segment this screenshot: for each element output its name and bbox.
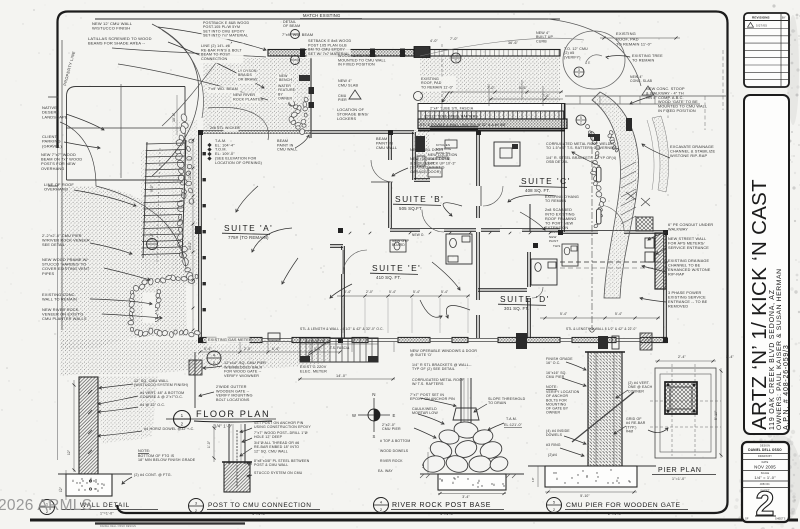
svg-text:SUITE 'B': SUITE 'B' bbox=[395, 194, 444, 204]
courtyard gate line bbox=[310, 56, 312, 138]
svg-text:2'-4": 2'-4" bbox=[726, 355, 734, 359]
pier top bbox=[585, 351, 625, 353]
svg-text:5'-4": 5'-4" bbox=[560, 312, 568, 316]
gravel band along bottom wall bbox=[60, 340, 330, 376]
keynote circles courtyard bbox=[291, 30, 300, 39]
svg-text:10": 10" bbox=[531, 477, 535, 482]
pier ground bbox=[528, 465, 545, 467]
lattice rungs bbox=[146, 143, 185, 144]
existing roof dim bbox=[600, 37, 680, 39]
svg-text:#: # bbox=[478, 479, 480, 483]
rrpb base bbox=[438, 474, 506, 490]
svg-text:5'-10": 5'-10" bbox=[714, 410, 718, 420]
lattice rails bbox=[143, 142, 147, 258]
margin ticks bbox=[48, 96, 58, 98]
interior dim row suite E bbox=[337, 295, 470, 297]
svg-text:2: 2 bbox=[756, 485, 775, 523]
patio stipple top bbox=[203, 58, 310, 130]
suite A top wall bbox=[200, 130, 414, 132]
svg-text:POSTBACK E 8&B WOODPOST.105 PL: POSTBACK E 8&B WOODPOST.105 PL/W 5YMSET … bbox=[203, 21, 249, 38]
svg-text:MATCH EXISTING: MATCH EXISTING bbox=[303, 13, 340, 18]
svg-text:PAINT: PAINT bbox=[549, 239, 558, 243]
rrpb collar bbox=[453, 408, 479, 420]
svg-text:5'-4": 5'-4" bbox=[413, 290, 421, 294]
svg-text:SUITE 'C': SUITE 'C' bbox=[521, 176, 571, 186]
svg-text:PIER PLAN: PIER PLAN bbox=[658, 467, 702, 474]
corridor wall ticks bbox=[349, 232, 352, 235]
pier diagonal batten bbox=[572, 392, 634, 442]
svg-text:1"=1'-0": 1"=1'-0" bbox=[252, 512, 267, 516]
storefront sill bbox=[418, 130, 565, 132]
post detail: threaded rod bbox=[236, 430, 238, 488]
left dim row verticals bbox=[239, 342, 241, 352]
lattice dim ticks bbox=[157, 148, 160, 262]
svg-text:5: 5 bbox=[580, 116, 582, 120]
wall detail title bbox=[40, 500, 55, 515]
interior dim row suite D bbox=[540, 317, 660, 319]
svg-text:7'-0": 7'-0" bbox=[450, 37, 458, 41]
svg-text:ARTZ ‘N’ 1/ KICK ‘N CAST: ARTZ ‘N’ 1/ KICK ‘N CAST bbox=[748, 179, 771, 430]
svg-text:1"=1'-0": 1"=1'-0" bbox=[672, 477, 686, 481]
post detail: steel plate bbox=[222, 461, 252, 463]
storage bins triangle bbox=[349, 90, 361, 99]
wall detail ground line bbox=[58, 473, 79, 475]
svg-text:SET POST ON ANCHOR PINUSING CO: SET POST ON ANCHOR PINUSING CONSTRUCTION… bbox=[254, 421, 311, 429]
svg-text:10": 10" bbox=[421, 463, 425, 468]
post detail title bbox=[189, 499, 204, 514]
svg-text:4: 4 bbox=[455, 54, 457, 58]
gas meter box bbox=[268, 333, 280, 340]
walkway X marks bbox=[626, 192, 636, 200]
svg-text:119 OAK CREEK BLVD SEDONA,: 119 OAK CREEK BLVD SEDONA, AZ bbox=[769, 289, 776, 430]
pier title bbox=[547, 498, 562, 513]
svg-text:NEW CONC. STOOP& WALKWAY - 4": NEW CONC. STOOP& WALKWAY - 4" THON 4" CO… bbox=[646, 87, 685, 100]
svg-text:(2)#4: (2)#4 bbox=[548, 453, 557, 457]
new cmu wall hatched band top bbox=[268, 50, 414, 57]
svg-text:SUITE 'A': SUITE 'A' bbox=[224, 223, 273, 233]
right top dashed verticals bbox=[704, 96, 706, 130]
svg-text:DANIEL DELL OSSO: DANIEL DELL OSSO bbox=[748, 448, 782, 452]
svg-text:5'-10": 5'-10" bbox=[580, 494, 590, 498]
property line left bbox=[61, 40, 63, 330]
joist markers along suite A left wall bbox=[203, 152, 206, 155]
svg-text:#: # bbox=[78, 488, 80, 492]
svg-text:POST TO CMU CONNECTION: POST TO CMU CONNECTION bbox=[208, 502, 312, 509]
svg-text:3'-4": 3'-4" bbox=[462, 495, 470, 499]
svg-text:DANIEL DELL OSSO DESIGN: DANIEL DELL OSSO DESIGN bbox=[100, 525, 136, 528]
bench bbox=[299, 75, 310, 81]
svg-text:(2) #4 CONT. @ FTG.: (2) #4 CONT. @ FTG. bbox=[134, 473, 172, 477]
svg-text:E: E bbox=[393, 413, 396, 418]
meters wall bbox=[655, 233, 666, 289]
sheet border frame bbox=[58, 12, 728, 514]
door swings bbox=[371, 160, 393, 182]
svg-text:SHEETS: SHEETS bbox=[775, 518, 786, 521]
svg-text:WOOD DOWELS: WOOD DOWELS bbox=[380, 449, 409, 453]
svg-text:6'-6": 6'-6" bbox=[519, 86, 527, 90]
desert landscape stipple left bbox=[60, 186, 187, 350]
svg-text:DRAWN BY: DRAWN BY bbox=[758, 455, 772, 458]
svg-text:OF: OF bbox=[745, 518, 749, 521]
svg-text:#4 VERT. 48" & BOTTOMCOURSE &: #4 VERT. 48" & BOTTOMCOURSE & @ 2"x7"O.C… bbox=[140, 391, 184, 399]
svg-text:301 SQ. FT.: 301 SQ. FT. bbox=[504, 306, 529, 311]
svg-text:T.S. FASCIA: T.S. FASCIA bbox=[330, 346, 350, 350]
svg-text:1"=1'-0": 1"=1'-0" bbox=[440, 512, 455, 516]
second dim row bbox=[298, 378, 395, 380]
river rock wall strip west of suite A bbox=[180, 113, 188, 122]
svg-text:2'-4": 2'-4" bbox=[678, 355, 686, 359]
bottom dim row bbox=[200, 351, 340, 353]
svg-text:6'-4": 6'-4" bbox=[272, 347, 280, 351]
top right sweep curve bbox=[548, 19, 641, 86]
svg-text:#3 RING: #3 RING bbox=[546, 443, 561, 447]
tree tangent curve bbox=[420, 38, 584, 56]
entry dims bbox=[442, 91, 563, 93]
step wall y232 from 563 to 665 bbox=[563, 230, 665, 232]
svg-text:7"x9" WD. BEAM: 7"x9" WD. BEAM bbox=[282, 33, 313, 37]
dark posts along walls bbox=[388, 130, 393, 135]
svg-text:LATILLAS SCREWED TO WOODBEAMS: LATILLAS SCREWED TO WOODBEAMS FOR SHADE … bbox=[88, 36, 152, 46]
svg-text:5'-4": 5'-4" bbox=[441, 290, 449, 294]
floor plan title circle bbox=[174, 411, 191, 428]
tree leader bbox=[606, 56, 630, 58]
svg-text:#: # bbox=[556, 477, 558, 481]
post detail dims bbox=[213, 424, 215, 462]
rrpb post bbox=[460, 378, 462, 424]
A/B divider bbox=[388, 132, 390, 228]
parking area bbox=[67, 87, 186, 181]
svg-text:CAULK/WELDMORTAR LOW: CAULK/WELDMORTAR LOW bbox=[412, 407, 438, 415]
drainage dashed line bbox=[560, 261, 668, 263]
svg-text:NOTE:: NOTE: bbox=[138, 449, 150, 453]
suite C storefront base bbox=[430, 126, 478, 128]
big S leaders bbox=[152, 24, 199, 176]
svg-text:NOV 2005: NOV 2005 bbox=[754, 465, 776, 470]
kitchen fixtures bbox=[416, 136, 425, 152]
wall detail footing bbox=[66, 474, 112, 496]
pier plan mid bbox=[660, 374, 711, 452]
svg-text:NEW ADD'L DOOR: NEW ADD'L DOOR bbox=[410, 148, 443, 152]
svg-text:CONC. SLAB: CONC. SLAB bbox=[630, 79, 653, 83]
right exterior wall lower bbox=[663, 232, 665, 340]
B/C divider bbox=[476, 132, 478, 338]
svg-text:1'-0": 1'-0" bbox=[207, 441, 211, 448]
svg-text:EXIST'G 220VELEC. METER: EXIST'G 220VELEC. METER bbox=[300, 365, 327, 373]
svg-text:1/4" = 1'-0": 1/4" = 1'-0" bbox=[754, 475, 776, 480]
svg-text:#: # bbox=[493, 483, 495, 487]
misc leaders top bbox=[158, 27, 266, 50]
svg-text:CORRUGATED METAL ROOF WELDEDTO: CORRUGATED METAL ROOF WELDEDTO 1.5"x.5" … bbox=[546, 142, 617, 150]
svg-text:#4 HORIZ DOWEL @32"+-C.: #4 HORIZ DOWEL @32"+-C. bbox=[144, 427, 194, 431]
NE drainage channel band bbox=[652, 116, 669, 192]
pier plan dims bbox=[655, 360, 716, 362]
svg-text:9'-0": 9'-0" bbox=[150, 184, 154, 192]
svg-text:#: # bbox=[586, 475, 588, 479]
tube steel fascia band bbox=[418, 104, 565, 112]
corridor wall y230 bbox=[390, 228, 560, 230]
svg-text:S: S bbox=[373, 434, 376, 439]
svg-text:REVISIONS: REVISIONS bbox=[752, 16, 770, 20]
courtyard vert dim bbox=[176, 95, 178, 135]
svg-text:12'-6": 12'-6" bbox=[188, 171, 192, 180]
wall detail ticks on wall bbox=[88, 390, 92, 394]
svg-text:A E: A E bbox=[585, 61, 590, 65]
svg-text:12": 12" bbox=[59, 487, 63, 492]
room leader arrows bbox=[252, 228, 292, 252]
svg-text:#: # bbox=[616, 479, 618, 483]
svg-text:3: 3 bbox=[578, 68, 580, 72]
svg-text:#: # bbox=[452, 481, 454, 485]
svg-text:2"x4" TUBE STL FASCIA: 2"x4" TUBE STL FASCIA bbox=[430, 107, 474, 111]
wall detail rebar dots bbox=[89, 480, 91, 482]
svg-text:NOTE:: NOTE: bbox=[546, 385, 558, 389]
gate hinge dark mark bbox=[626, 118, 632, 131]
tube steel rafters band bbox=[418, 111, 565, 119]
rrpb dims bbox=[438, 493, 506, 495]
svg-text:A.P.N. # 408-26-059/3: A.P.N. # 408-26-059/3 bbox=[783, 344, 790, 430]
wall detail dims bbox=[73, 380, 75, 472]
band return corner bbox=[588, 134, 600, 141]
suite A left wall bbox=[198, 132, 200, 340]
vertical dim string left of building bbox=[192, 140, 194, 330]
svg-text:CMU PIER FOR WOODEN GATE: CMU PIER FOR WOODEN GATE bbox=[566, 502, 681, 509]
svg-text:2: 2 bbox=[580, 121, 582, 125]
svg-text:#: # bbox=[72, 479, 74, 483]
patio rock planter cluster bbox=[281, 95, 289, 103]
E north stub bbox=[330, 244, 343, 246]
suite D bath bbox=[531, 259, 557, 285]
pier plan inner hatched bbox=[665, 382, 697, 414]
kitchen wall bbox=[412, 132, 414, 180]
svg-text:12"x12" TUBE STEEL RAFTERS: 12"x12" TUBE STEEL RAFTERS bbox=[424, 115, 478, 119]
svg-text:5'-4": 5'-4" bbox=[615, 312, 623, 316]
compass rose bbox=[373, 398, 375, 432]
svg-text:4'-0": 4'-0" bbox=[430, 39, 438, 43]
svg-text:16"x16" SQ.CMU PIER: 16"x16" SQ.CMU PIER bbox=[546, 371, 567, 379]
suite D bath 2 bbox=[562, 244, 578, 266]
svg-text:BY: BY bbox=[782, 16, 786, 20]
svg-text:NEW O.: NEW O. bbox=[412, 233, 425, 237]
svg-text:2: 2 bbox=[455, 59, 457, 63]
svg-text:EXISTING: EXISTING bbox=[616, 31, 636, 36]
svg-text:1: 1 bbox=[181, 413, 184, 418]
existing roof edge lines bbox=[565, 95, 726, 97]
post detail: post bbox=[228, 424, 230, 464]
hatched block ne corner bbox=[636, 217, 653, 231]
svg-text:EL:121'-0": EL:121'-0" bbox=[504, 423, 523, 427]
pier plan outer bbox=[655, 368, 716, 458]
vertical dashdot line bbox=[591, 134, 593, 330]
svg-text:RIVER ROCK: RIVER ROCK bbox=[380, 459, 403, 463]
A/E divider bbox=[341, 246, 343, 338]
svg-text:1/4" 1'-0": 1/4" 1'-0" bbox=[214, 424, 233, 429]
project title block bbox=[744, 95, 789, 434]
svg-text:1"=1'-0": 1"=1'-0" bbox=[100, 512, 114, 516]
svg-text:EXISTING CONC.WALL TO REMAIN: EXISTING CONC.WALL TO REMAIN bbox=[42, 292, 77, 302]
rrpb stones pyramid bbox=[453, 420, 479, 439]
conc stoop walkway curvy band bbox=[592, 92, 639, 298]
wall band posts bbox=[300, 49, 305, 58]
svg-text:STL & LENGTH & WALL - 4 1/2" &: STL & LENGTH & WALL - 4 1/2" & 42" & 32'… bbox=[300, 327, 384, 331]
svg-text:5'-4": 5'-4" bbox=[389, 290, 397, 294]
post detail: cmu base bbox=[224, 462, 250, 492]
bottom sheet edge line bbox=[30, 519, 798, 522]
svg-text:STUCCO SYSTEM ON CMU: STUCCO SYSTEM ON CMU bbox=[254, 471, 303, 475]
dark door block bottom wall bbox=[516, 333, 527, 349]
pier dims bbox=[545, 491, 637, 493]
walkway hatch ticks bbox=[621, 162, 636, 170]
svg-text:7'-6": 7'-6" bbox=[542, 94, 550, 98]
revisions table bbox=[744, 13, 789, 87]
suite C partition bbox=[529, 204, 531, 231]
bath suite E small bbox=[390, 240, 406, 252]
pier bar bbox=[588, 352, 622, 468]
svg-text:7'x9' WD. BEAM: 7'x9' WD. BEAM bbox=[208, 87, 238, 91]
gate elevation inset bbox=[300, 338, 378, 362]
svg-text:3'-4": 3'-4" bbox=[344, 290, 352, 294]
svg-text:24'-2": 24'-2" bbox=[188, 241, 192, 250]
stamp / sheet box bbox=[742, 442, 789, 522]
svg-text:T.A.M.: T.A.M. bbox=[506, 417, 517, 421]
svg-text:5'-4": 5'-4" bbox=[204, 347, 212, 351]
gravel patch lower left bbox=[96, 376, 158, 444]
svg-text:14'-0": 14'-0" bbox=[336, 374, 347, 378]
rrpb ground bbox=[420, 473, 438, 475]
big S leader through patio bbox=[208, 107, 268, 140]
building bottom wall segments with window gaps bbox=[200, 337, 216, 342]
bolted wall band bbox=[418, 119, 567, 129]
wall detail stem wall bbox=[79, 377, 98, 474]
svg-text:5/27/05: 5/27/05 bbox=[756, 24, 767, 28]
keynote circles bbox=[451, 53, 461, 63]
svg-text:NEW STREET WALLFOR APS METERS/: NEW STREET WALLFOR APS METERS/SERVICE EN… bbox=[668, 237, 709, 250]
svg-text:2'-0": 2'-0" bbox=[244, 347, 252, 351]
gate pier line bbox=[194, 352, 196, 408]
svg-text:2026 ARMLS: 2026 ARMLS bbox=[0, 497, 92, 514]
svg-text:W: W bbox=[352, 413, 356, 418]
svg-text:N: N bbox=[372, 392, 375, 397]
svg-text:36'-6": 36'-6" bbox=[508, 41, 519, 45]
match existing line top bbox=[95, 18, 560, 20]
rock cluster right of patio (by entry) bbox=[585, 124, 590, 129]
parking fence vline bbox=[120, 84, 122, 178]
svg-text:WICKER: WICKER bbox=[225, 126, 240, 130]
existing tree bbox=[563, 31, 625, 89]
planter stipple strip upper left of suite A bbox=[172, 120, 198, 286]
svg-text:#: # bbox=[103, 483, 105, 487]
svg-text:2'-0": 2'-0" bbox=[366, 290, 374, 294]
svg-text:FLOOR PLAN: FLOOR PLAN bbox=[196, 409, 270, 419]
svg-text:408 SQ. FT.: 408 SQ. FT. bbox=[525, 188, 550, 193]
svg-text:CMUPIER: CMUPIER bbox=[338, 94, 347, 102]
svg-text:RIVER ROCK POST BASE: RIVER ROCK POST BASE bbox=[392, 502, 491, 509]
svg-text:2"=1'-0": 2"=1'-0" bbox=[608, 512, 623, 516]
right exterior wall upper (suite C east) bbox=[561, 104, 563, 232]
D closet wall bbox=[478, 288, 529, 290]
dark blocks on bottom wall right bbox=[598, 336, 608, 349]
svg-text:EXISTING GAS METER: EXISTING GAS METER bbox=[208, 338, 252, 342]
ohang post capsules bbox=[597, 167, 602, 182]
svg-text:410 SQ. FT.: 410 SQ. FT. bbox=[376, 275, 401, 280]
svg-text:EA. WAY: EA. WAY bbox=[378, 469, 393, 473]
svg-text:NEW 12' CMU WALLW/STUCCO FINIS: NEW 12' CMU WALLW/STUCCO FINISH bbox=[92, 21, 133, 31]
svg-text:2: 2 bbox=[181, 422, 184, 427]
svg-text:#4 @ 32" O.C.: #4 @ 32" O.C. bbox=[140, 403, 165, 407]
svg-text:SUITE 'E': SUITE 'E' bbox=[372, 263, 421, 273]
svg-text:STL & LENGTH & WALL 8 1/2" & 4: STL & LENGTH & WALL 8 1/2" & 42" & 22'-0… bbox=[566, 327, 637, 331]
svg-text:#: # bbox=[97, 489, 99, 493]
svg-text:OWNERS: PAUL KAISER & SUSAN HE: OWNERS: PAUL KAISER & SUSAN HERMAN bbox=[776, 268, 783, 430]
svg-text:7'-0": 7'-0" bbox=[487, 86, 495, 90]
svg-text:12": 12" bbox=[67, 450, 71, 455]
svg-text:2: 2 bbox=[578, 73, 580, 77]
rrpb title bbox=[374, 498, 389, 513]
D divider vertical bbox=[527, 252, 529, 338]
svg-text:SUITE 'D': SUITE 'D' bbox=[500, 294, 550, 304]
bath east of B/C divider bbox=[494, 142, 520, 166]
pier base bbox=[545, 466, 637, 487]
river rock planter L lower left bbox=[195, 274, 198, 278]
svg-text:10'-0": 10'-0" bbox=[172, 112, 176, 122]
svg-text:1/2"x1/2" T.S.: 1/2"x1/2" T.S. bbox=[306, 339, 325, 343]
svg-text:# TOP & BOTTOM: # TOP & BOTTOM bbox=[380, 439, 410, 443]
svg-text:505 SQ.FT.: 505 SQ.FT. bbox=[399, 206, 423, 211]
bath suite B bbox=[446, 234, 472, 264]
svg-text:THIS: THIS bbox=[553, 244, 560, 248]
overhang curve lines bbox=[96, 186, 186, 268]
